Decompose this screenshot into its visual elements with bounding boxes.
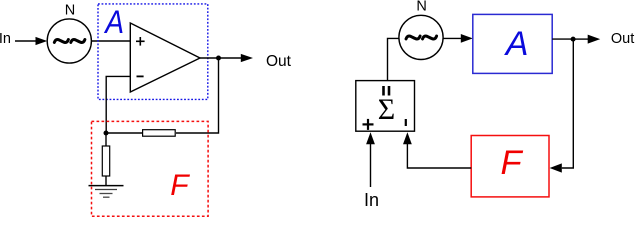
wire output arrow to Out (right) bbox=[573, 35, 600, 44]
svg-text:Out: Out bbox=[611, 31, 634, 47]
svg-text:N: N bbox=[416, 0, 426, 15]
sign marks II (summing junction top input) bbox=[384, 86, 390, 96]
wire noise source arrow to block A bbox=[443, 34, 473, 43]
sign mark tick (summing junction feedback input) bbox=[405, 119, 407, 126]
wire feedback node to resistor R2 bbox=[105, 133, 107, 146]
sign mark + (summing junction In input) bbox=[363, 119, 374, 130]
op-amp U1 bbox=[130, 23, 200, 92]
junction output node (left) bbox=[216, 56, 221, 61]
wire resistor R2 to ground bbox=[105, 176, 107, 186]
feedback network F boundary (red dashed box) bbox=[92, 121, 209, 216]
wire op-amp - input to feedback node bbox=[106, 76, 130, 133]
svg-text:In: In bbox=[364, 190, 379, 210]
summing junction block bbox=[356, 81, 415, 132]
feedback block F (red box) bbox=[471, 136, 549, 197]
wire In arrow into summing junction (right) bbox=[366, 132, 375, 187]
wire feedback node horizontal bbox=[106, 132, 143, 134]
wire output down to feedback network bbox=[176, 58, 219, 133]
wire summing junction output to noise source bbox=[388, 38, 400, 80]
wire op-amp output bbox=[200, 57, 219, 59]
resistor R1 (horizontal feedback resistor) bbox=[143, 130, 176, 137]
svg-text:In: In bbox=[0, 31, 11, 47]
svg-text:F: F bbox=[501, 144, 524, 182]
wire block A output bbox=[552, 38, 573, 40]
svg-text:Σ: Σ bbox=[378, 93, 395, 126]
junction output node (right) bbox=[571, 37, 576, 42]
svg-text:Out: Out bbox=[266, 53, 292, 70]
wire In arrow to noise source bbox=[15, 37, 47, 45]
resistor R2 (vertical shunt resistor) bbox=[102, 146, 109, 176]
amplifier block A boundary (blue dashed box) bbox=[98, 4, 208, 100]
wire noise source to op-amp + input bbox=[91, 40, 130, 42]
svg-text:A: A bbox=[103, 5, 124, 40]
amplifier block A (blue box) bbox=[473, 14, 552, 73]
junction feedback node bbox=[104, 131, 109, 136]
wire block F output to summing junction arrow bbox=[403, 132, 471, 168]
svg-text:N: N bbox=[65, 3, 75, 19]
svg-text:F: F bbox=[170, 169, 190, 202]
wire output arrow to Out bbox=[219, 54, 254, 62]
svg-text:A: A bbox=[504, 25, 529, 63]
noise source N (left) bbox=[47, 19, 91, 63]
noise source N (right) bbox=[399, 15, 443, 59]
ground bbox=[89, 186, 124, 198]
wire output down to block F arrow bbox=[550, 39, 574, 172]
